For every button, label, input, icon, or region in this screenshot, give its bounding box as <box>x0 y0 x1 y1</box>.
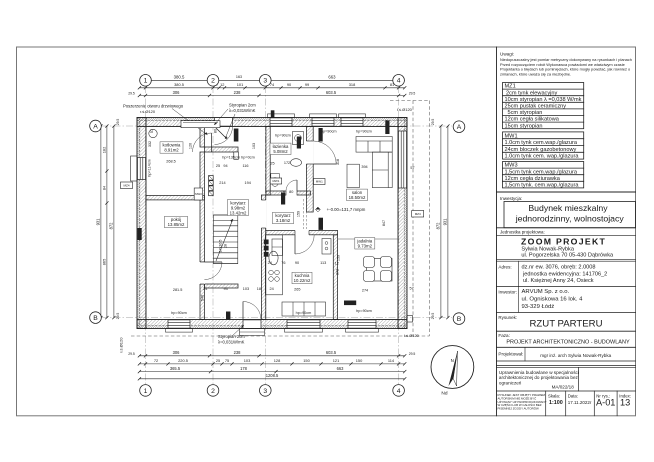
insulation dashes right wall <box>403 118 405 329</box>
chairs jadalnia <box>364 257 392 282</box>
svg-text:3: 3 <box>263 78 267 85</box>
svg-text:ł.ś.Ø120: ł.ś.Ø120 <box>119 337 124 353</box>
top dimension line row1 <box>139 79 404 81</box>
svg-text:25: 25 <box>216 358 220 363</box>
interior wall H6 kuchnia north <box>266 231 338 235</box>
window bottom wall 2 (jadalnia) <box>348 320 376 328</box>
svg-text:Skala:: Skala: <box>548 393 560 398</box>
svg-text:80: 80 <box>213 129 217 133</box>
window top wall 1 (lazienka) <box>270 118 292 126</box>
room label lazienka <box>270 143 291 154</box>
svg-text:931: 931 <box>95 218 100 226</box>
window sill top wall 2 <box>310 114 337 118</box>
uwagi note <box>500 52 632 77</box>
axis grid line 3 <box>264 86 266 384</box>
tag MW1 b <box>314 179 326 185</box>
interior wall V6 kuchnia/jadalnia <box>333 235 337 320</box>
entrance exterior step <box>240 329 265 336</box>
left dimension line 872 <box>113 126 115 318</box>
svg-text:12: 12 <box>220 82 224 87</box>
svg-text:1208.5: 1208.5 <box>266 373 279 378</box>
svg-text:2: 2 <box>211 388 215 395</box>
svg-text:λ=0,031W/mK: λ=0,031W/mK <box>218 339 245 344</box>
svg-text:220.5: 220.5 <box>178 358 188 363</box>
svg-text:24: 24 <box>203 287 207 291</box>
svg-text:5cm styropian: 5cm styropian <box>508 110 543 116</box>
svg-text:394: 394 <box>361 165 367 169</box>
svg-text:268.5: 268.5 <box>166 160 176 164</box>
door leaf+arc lazienka <box>296 180 298 191</box>
svg-text:8.91m2: 8.91m2 <box>164 148 179 153</box>
svg-text:hp=90cm: hp=90cm <box>356 129 372 133</box>
insulation dashes left wall <box>139 118 141 329</box>
svg-text:+-0.00=131,7 mnpm: +-0.00=131,7 mnpm <box>327 207 366 212</box>
svg-text:90: 90 <box>295 261 299 265</box>
svg-text:603.5: 603.5 <box>326 350 337 355</box>
room label jadalnia <box>355 238 375 249</box>
interior wall V1c (pokoj east lower) <box>200 284 204 320</box>
axis circle 2 bottom <box>207 385 219 397</box>
boiler kotlownia <box>149 129 157 137</box>
svg-text:λ=0,031W/mK: λ=0,031W/mK <box>229 108 256 113</box>
svg-text:1:100: 1:100 <box>549 400 563 406</box>
svg-text:RZUT PARTERU: RZUT PARTERU <box>529 318 602 329</box>
svg-text:114: 114 <box>388 358 395 363</box>
svg-text:29.5: 29.5 <box>409 92 416 96</box>
room label kotlownia <box>160 142 183 153</box>
svg-text:28: 28 <box>224 244 228 248</box>
svg-text:72: 72 <box>154 358 158 363</box>
toilet lazienka <box>271 174 280 179</box>
svg-text:1.0cm tynk cem.wap./glazura: 1.0cm tynk cem.wap./glazura <box>505 140 578 146</box>
axis circle B right <box>453 313 465 325</box>
kitchen counter bottom <box>282 302 326 316</box>
interior wall V3b kuchnia west <box>261 195 265 320</box>
sofa salon <box>356 137 392 188</box>
level mark salon <box>316 207 321 212</box>
window left wall (kotlownia) <box>138 158 146 180</box>
tag MW3 korytarz <box>281 193 285 205</box>
tag lintel top wall window3 <box>385 121 389 135</box>
axis circle A right <box>453 121 465 133</box>
svg-text:ul. Księżnej Anny 24, Osieck: ul. Księżnej Anny 24, Osieck <box>523 278 594 284</box>
compass circle <box>431 346 474 389</box>
svg-text:1.0cm tynk cem. wap./glazura: 1.0cm tynk cem. wap./glazura <box>505 154 580 160</box>
svg-text:15cm styropian: 15cm styropian <box>505 123 543 129</box>
svg-text:dz.nr ew. 3076, obręb: 2.0008: dz.nr ew. 3076, obręb: 2.0008 <box>522 264 596 270</box>
dashed eaves outline bottom <box>131 335 429 337</box>
svg-text:MW3: MW3 <box>195 192 202 196</box>
svg-text:Projektował:: Projektował: <box>498 352 523 357</box>
bottom dimension line row4 <box>139 378 404 380</box>
svg-text:B: B <box>457 316 462 323</box>
door opening lazienka <box>286 190 297 196</box>
room label salon <box>347 189 368 200</box>
kitchen shafts <box>264 240 269 245</box>
dashed eaves outline top-right corner <box>390 100 429 102</box>
interior wall V45 lazienka-salon east <box>306 127 313 213</box>
svg-text:372: 372 <box>336 269 340 275</box>
svg-text:663: 663 <box>337 366 345 371</box>
svg-text:94: 94 <box>223 164 227 168</box>
svg-text:A: A <box>457 124 462 131</box>
room label kuchnia <box>292 272 312 283</box>
svg-text:Rysunek:: Rysunek: <box>498 315 517 320</box>
svg-text:Budynek mieszkalny: Budynek mieszkalny <box>528 203 608 213</box>
svg-text:128: 128 <box>274 358 281 363</box>
washbasin lazienka <box>291 159 302 167</box>
svg-text:214: 214 <box>219 181 225 185</box>
svg-text:17.11.2022r: 17.11.2022r <box>568 400 592 405</box>
svg-text:546: 546 <box>201 295 205 301</box>
svg-text:hp=90cm: hp=90cm <box>275 133 291 137</box>
axis grid line 1 <box>145 86 147 384</box>
svg-text:25cm pustak ceramiczny: 25cm pustak ceramiczny <box>505 104 567 110</box>
svg-text:178: 178 <box>240 366 248 371</box>
door opening salon <box>306 141 314 164</box>
tag bottom wall <box>226 312 230 320</box>
svg-text:Inwestycja:: Inwestycja: <box>500 196 522 201</box>
svg-text:663: 663 <box>328 75 336 80</box>
svg-text:4: 4 <box>397 78 401 85</box>
svg-text:MZ4: MZ4 <box>124 183 130 187</box>
room label korytarz2 <box>273 212 294 223</box>
svg-text:2cm tynk elewacyjny: 2cm tynk elewacyjny <box>506 90 557 96</box>
window sill left wall <box>131 156 137 181</box>
axis circle 1 top <box>140 75 152 87</box>
kitchen counter left <box>265 235 282 295</box>
svg-text:103: 103 <box>252 143 256 149</box>
svg-text:ul. Ogniskowa 16 lok. 4: ul. Ogniskowa 16 lok. 4 <box>522 296 584 302</box>
svg-text:238: 238 <box>234 90 242 95</box>
svg-text:116: 116 <box>242 164 248 168</box>
svg-text:29.5: 29.5 <box>116 313 120 320</box>
svg-text:PISEMNEJ ZGODY AUTORÓW: PISEMNEJ ZGODY AUTORÓW <box>498 406 539 411</box>
left dimension line 931 <box>100 126 102 318</box>
svg-text:hp=135cm hp=0cm: hp=135cm hp=0cm <box>222 156 255 160</box>
widened opening lintel rect <box>181 121 220 128</box>
svg-text:159: 159 <box>337 255 341 261</box>
svg-text:2: 2 <box>211 78 215 85</box>
svg-text:24: 24 <box>269 287 273 291</box>
room label pokoj <box>165 216 188 227</box>
svg-text:18: 18 <box>257 287 261 291</box>
tag left wall <box>138 228 142 240</box>
axis circle 3 bottom <box>260 385 272 397</box>
small dimension texts inside plan <box>147 129 414 315</box>
uprawnienia section <box>499 370 579 390</box>
interior wall V1a (kotlownia east upper) <box>200 127 204 148</box>
tag above top wall <box>271 110 275 118</box>
axis grid line 2 <box>212 86 214 384</box>
tag MW3 salon wall <box>319 218 324 230</box>
svg-text:318: 318 <box>349 82 356 87</box>
tag lazienka <box>297 137 301 149</box>
svg-text:172: 172 <box>284 161 290 165</box>
svg-text:159: 159 <box>297 211 301 217</box>
axis circle B left <box>90 312 102 324</box>
svg-text:MW3: MW3 <box>505 163 518 169</box>
axis circle 1 bottom <box>140 385 152 397</box>
tag MZ4 right <box>412 211 424 218</box>
entrance door opening bottom wall <box>243 320 261 328</box>
svg-text:9.73m2: 9.73m2 <box>358 244 373 249</box>
svg-text:1: 1 <box>144 78 148 85</box>
axis grid line 4 <box>398 86 400 384</box>
svg-text:jednorodzinny, wolnostojacy: jednorodzinny, wolnostojacy <box>515 214 625 224</box>
svg-text:1: 1 <box>144 388 148 395</box>
svg-text:318: 318 <box>336 159 340 165</box>
room label korytarz1 <box>228 200 249 216</box>
svg-text:hp=90cm: hp=90cm <box>321 129 337 133</box>
tag MZ4 left <box>121 182 133 189</box>
svg-text:N: N <box>451 358 454 363</box>
door opening kuchnia <box>295 230 309 236</box>
window sill top wall 1 <box>268 114 295 118</box>
svg-text:3: 3 <box>263 388 267 395</box>
exterior wall top <box>137 118 407 121</box>
svg-text:103: 103 <box>243 287 249 291</box>
window right wall (salon) <box>399 131 407 188</box>
svg-text:Uprawnienia budowlane w specja: Uprawnienia budowlane w specjalności <box>499 370 579 375</box>
svg-text:mgr inż. arch Sylwia Nowak-Ryb: mgr inż. arch Sylwia Nowak-Rybka <box>540 353 611 358</box>
right dimension line 931 <box>447 126 449 318</box>
corner block bottom-right exterior <box>407 316 413 323</box>
svg-text:101: 101 <box>237 82 244 87</box>
window sill top wall 3 <box>339 114 366 118</box>
svg-text:75: 75 <box>225 358 229 363</box>
svg-text:hp=90cm: hp=90cm <box>171 311 187 315</box>
bottom dimension line row2 <box>139 363 404 365</box>
ventilation shafts <box>209 176 214 181</box>
svg-text:MZ1: MZ1 <box>505 84 516 90</box>
svg-text:238: 238 <box>234 350 242 355</box>
dashed opening marks korytarz3/kuchnia <box>303 199 305 229</box>
tag lintel top wall <box>234 129 239 142</box>
bottom dimension line row1 <box>139 355 404 357</box>
exterior wall right <box>404 118 407 329</box>
bottom row : copyright tiny text <box>498 393 547 411</box>
svg-text:5.08m2: 5.08m2 <box>273 149 288 154</box>
axis circle A left <box>90 120 102 132</box>
svg-text:hp=114cm: hp=114cm <box>147 159 151 177</box>
tag MW3 jadalnia bottom <box>344 301 356 306</box>
svg-text:12cm cegła silikatowa: 12cm cegła silikatowa <box>505 117 560 123</box>
axis circle 4 top <box>393 75 405 87</box>
svg-text:4: 4 <box>397 388 401 395</box>
interior wall V3a lazienka west <box>266 127 270 196</box>
svg-text:29.5: 29.5 <box>431 313 435 320</box>
svg-text:MW1: MW1 <box>272 179 279 183</box>
sidelight box nook <box>234 152 239 159</box>
svg-text:121: 121 <box>333 358 340 363</box>
svg-text:3.18m2: 3.18m2 <box>276 218 291 223</box>
inwestycja section <box>497 191 636 193</box>
left dimension line 182/84/865 <box>106 126 108 318</box>
insulation dashes top wall <box>137 119 407 121</box>
svg-text:Styropian 2cm: Styropian 2cm <box>218 334 245 339</box>
svg-text:57: 57 <box>409 287 413 291</box>
svg-text:25: 25 <box>216 164 220 168</box>
svg-text:872: 872 <box>435 222 440 230</box>
svg-text:120: 120 <box>189 143 193 149</box>
svg-text:PROJEKT ARCHITEKTONICZNO - BUD: PROJEKT ARCHITEKTONICZNO - BUDOWLANY <box>506 340 630 346</box>
svg-text:79: 79 <box>281 190 285 194</box>
svg-text:10cm styropian λ =0,038 W/mk: 10cm styropian λ =0,038 W/mk <box>505 97 582 103</box>
svg-text:29.5: 29.5 <box>409 352 416 356</box>
svg-text:Poszerzenie otworu drzwiowego: Poszerzenie otworu drzwiowego <box>123 103 184 108</box>
tag MW1 a <box>270 178 282 184</box>
svg-text:57: 57 <box>410 166 414 170</box>
svg-text:ul. Pogorzelska 70 05-430 Dąb: ul. Pogorzelska 70 05-430 Dąbrówka <box>521 253 614 259</box>
svg-text:25: 25 <box>270 162 274 166</box>
svg-text:1,5cm tynk. cem.wap./glazura: 1,5cm tynk. cem.wap./glazura <box>505 183 580 189</box>
MW1 material table <box>503 132 584 159</box>
svg-text:MZ4: MZ4 <box>415 212 421 216</box>
svg-text:93-329 Łódź: 93-329 Łódź <box>522 304 555 310</box>
svg-text:29.5: 29.5 <box>128 92 135 96</box>
insulation dashes bottom wall <box>137 325 407 327</box>
coffee table salon <box>347 164 359 187</box>
svg-text:MW1: MW1 <box>316 180 323 184</box>
door opening pokoj <box>199 262 205 284</box>
window sill bottom wall 1 <box>166 329 193 333</box>
svg-text:B: B <box>93 315 98 322</box>
open boundary salon/jadalnia <box>338 238 398 240</box>
svg-text:306: 306 <box>173 350 181 355</box>
stairs <box>213 215 237 264</box>
kitchen sink <box>269 251 278 265</box>
svg-text:603.5: 603.5 <box>326 90 337 95</box>
window sill bottom wall 3 <box>285 329 323 333</box>
axis grid line B <box>101 317 452 319</box>
svg-text:150: 150 <box>356 358 363 363</box>
axis circle 4 bottom <box>393 385 405 397</box>
MW3 material table <box>503 162 584 188</box>
entrance door opening top wall <box>215 118 233 126</box>
door leaf+arc entrance <box>242 302 244 320</box>
svg-text:29.5: 29.5 <box>116 119 120 126</box>
window sill bottom wall 2 <box>346 329 379 333</box>
svg-text:150: 150 <box>303 358 310 363</box>
dining table jadalnia <box>367 259 393 282</box>
svg-text:Jednostka projektowa:: Jednostka projektowa: <box>500 229 545 234</box>
door leaf+arc kuchnia <box>294 235 296 254</box>
kitchen tall cabinet top-left <box>272 239 283 256</box>
svg-text:182: 182 <box>101 147 106 154</box>
svg-text:103: 103 <box>244 358 251 363</box>
exterior wall left <box>137 118 140 329</box>
svg-text:ARVUM Sp. z o.o.: ARVUM Sp. z o.o. <box>522 289 570 295</box>
top dimension line row3 <box>139 95 404 97</box>
svg-text:13.42m2: 13.42m2 <box>230 210 247 215</box>
svg-text:MW1: MW1 <box>505 133 518 139</box>
svg-text:12cm cegła dziurawka: 12cm cegła dziurawka <box>505 176 561 182</box>
svg-text:ograniczeń: ograniczeń <box>499 381 522 386</box>
axis grid line A <box>101 125 452 127</box>
window bottom wall 3 (kuchnia) <box>287 320 320 328</box>
top dimension line row2 <box>139 87 404 89</box>
opening korytarz3 west <box>261 200 267 228</box>
compass needle <box>449 351 458 386</box>
interior wall H3 lazienka south <box>266 191 311 195</box>
svg-text:24cm bloczek gazobetonowy: 24cm bloczek gazobetonowy <box>505 147 577 153</box>
svg-text:24: 24 <box>268 261 272 265</box>
svg-text:931: 931 <box>442 218 447 226</box>
svg-text:10.22m2: 10.22m2 <box>294 278 311 283</box>
stairs arrow <box>216 219 233 261</box>
svg-text:99: 99 <box>305 82 309 87</box>
tag lintel top wall window2 <box>319 128 323 142</box>
window bottom wall 1 (pokoj) <box>168 320 190 328</box>
door leaf+arc pokoj <box>204 261 222 263</box>
interior wall H1 kotlownia/pokoj <box>146 196 204 200</box>
svg-text:281.5: 281.5 <box>173 288 183 292</box>
svg-text:13: 13 <box>620 398 630 408</box>
svg-text:93: 93 <box>223 287 227 291</box>
dashed eaves outline right <box>428 101 430 337</box>
MZ1 material table <box>503 83 584 129</box>
axis circle 2 top <box>207 75 219 87</box>
bottom dimension line row3 <box>139 371 404 373</box>
svg-text:ZOOM PROJEKT: ZOOM PROJEKT <box>521 237 606 247</box>
svg-text:hp=90cm: hp=90cm <box>296 311 312 315</box>
door leaf+arc salon <box>313 163 336 165</box>
svg-text:80: 80 <box>289 190 293 194</box>
entrance door leaf+arc top <box>215 127 228 140</box>
svg-text:194: 194 <box>245 181 251 185</box>
svg-text:18.50m2: 18.50m2 <box>349 195 366 200</box>
svg-text:Faza:: Faza: <box>498 333 510 338</box>
svg-text:163: 163 <box>236 75 242 79</box>
svg-text:1,5cm tynk cem.wap./glazura: 1,5cm tynk cem.wap./glazura <box>505 169 578 175</box>
svg-text:872: 872 <box>108 222 113 230</box>
svg-text:Nd: Nd <box>441 391 447 397</box>
svg-text:306: 306 <box>173 90 181 95</box>
window top wall 3 (salon right) <box>341 118 363 126</box>
interior wall V1b (kotlownia/pokoj east) <box>200 152 204 262</box>
svg-text:Data:: Data: <box>568 393 578 398</box>
svg-text:jednostka ewidencyjna: 141706_: jednostka ewidencyjna: 141706_2 <box>522 271 607 277</box>
svg-text:29.5: 29.5 <box>128 352 135 356</box>
interior wall H2 below stairs <box>204 284 238 288</box>
svg-text:A: A <box>93 123 98 130</box>
kitchen fridge top-right <box>322 239 331 255</box>
svg-text:Sylwia Nowak-Rybka: Sylwia Nowak-Rybka <box>521 247 574 253</box>
svg-text:hp=90cm: hp=90cm <box>356 309 372 313</box>
tag MW3 stairs <box>194 188 203 200</box>
svg-text:r.ś.Ø120: r.ś.Ø120 <box>140 109 156 114</box>
axis circle 3 top <box>260 75 272 87</box>
window top wall 2 (salon left) <box>312 118 334 126</box>
svg-text:Styropian 2cm: Styropian 2cm <box>229 103 256 108</box>
svg-text:380.5: 380.5 <box>174 75 185 80</box>
svg-text:ł.ś.Ø120: ł.ś.Ø120 <box>397 107 413 112</box>
svg-text:zmianach, które uważa się za n: zmianach, które uważa się za niezbędne. <box>500 72 571 77</box>
svg-text:57: 57 <box>150 129 154 133</box>
door leaf+arc kotlownia <box>211 133 213 152</box>
svg-text:265: 265 <box>294 288 300 292</box>
svg-text:76: 76 <box>281 261 285 265</box>
svg-text:17x16.5: 17x16.5 <box>219 240 223 253</box>
svg-text:A-01: A-01 <box>596 398 615 408</box>
titleblock left border <box>496 47 498 416</box>
svg-text:365.5: 365.5 <box>170 366 181 371</box>
exterior wall bottom <box>137 325 407 328</box>
svg-text:113: 113 <box>320 261 326 265</box>
svg-text:29.5: 29.5 <box>431 119 435 126</box>
svg-text:865: 865 <box>101 259 106 266</box>
